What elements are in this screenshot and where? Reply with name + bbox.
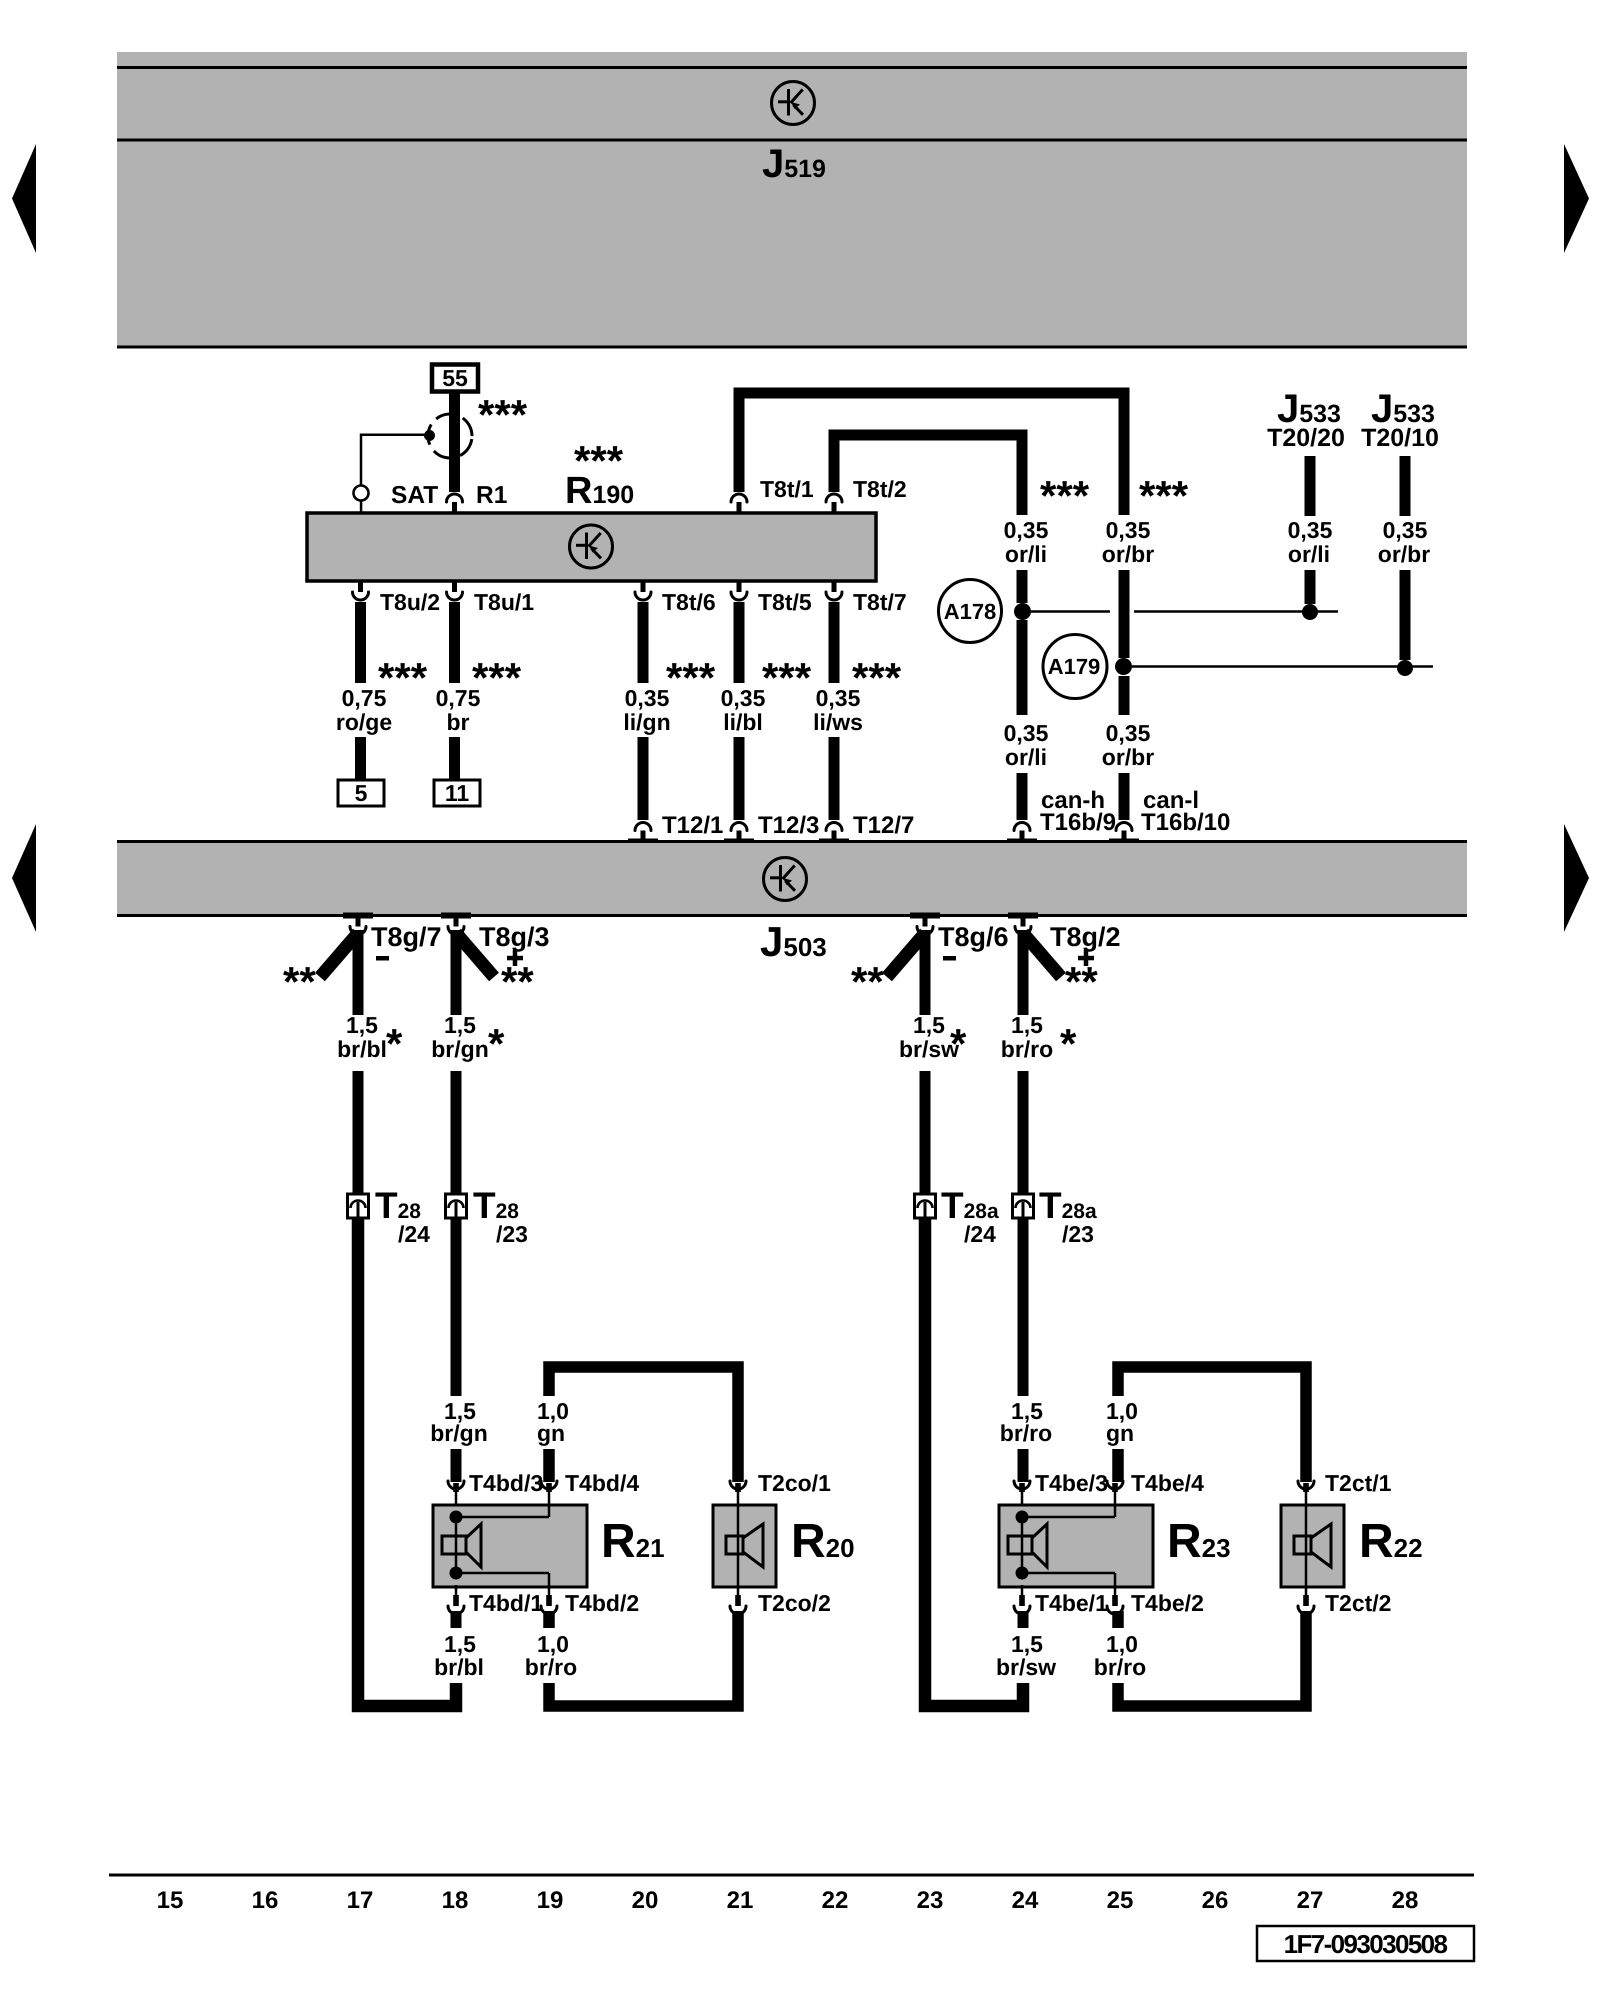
svg-text:T4bd/2: T4bd/2 <box>565 1590 639 1616</box>
pin T4bd/2 <box>541 1585 557 1614</box>
wire 0,35 li/bl from T8t/5 <box>734 602 745 820</box>
svg-text:/23: /23 <box>496 1221 528 1247</box>
svg-text:br/bl: br/bl <box>337 1036 387 1062</box>
svg-text:T20/20: T20/20 <box>1267 424 1345 452</box>
svg-text:br/ro: br/ro <box>1001 1036 1053 1062</box>
pin T2co/2 <box>730 1585 746 1614</box>
svg-text:br/ro: br/ro <box>1000 1420 1052 1446</box>
wire br/bl down-left column to bottom elbow <box>358 1218 456 1706</box>
svg-text:0,35: 0,35 <box>1106 517 1151 543</box>
svg-text:0,35: 0,35 <box>721 685 766 711</box>
svg-text:T4be/4: T4be/4 <box>1131 1470 1204 1496</box>
pin T16b/10 on J503 <box>1116 823 1132 843</box>
svg-text:0,35: 0,35 <box>1004 517 1049 543</box>
svg-text:***: *** <box>1139 472 1189 519</box>
svg-text:25: 25 <box>1107 1887 1134 1914</box>
polarity - <box>376 956 389 961</box>
svg-text:br/gn: br/gn <box>430 1420 488 1446</box>
svg-text:ro/ge: ro/ge <box>336 709 392 735</box>
svg-text:**: ** <box>851 958 884 1005</box>
svg-text:or/li: or/li <box>1005 744 1047 770</box>
pin T8g/3 on J503 <box>448 915 464 935</box>
svg-text:5: 5 <box>355 780 368 806</box>
pin T4be/3 <box>1014 1481 1030 1506</box>
junction dot A179 on or/br <box>1115 658 1132 675</box>
svg-text:**: ** <box>1065 958 1098 1005</box>
wire 1,5 br/sw <box>920 930 931 1194</box>
svg-text:T8u/1: T8u/1 <box>474 589 534 615</box>
pin T4be/2 <box>1107 1585 1123 1614</box>
speaker R20 box <box>713 1505 776 1587</box>
speaker R21 box <box>433 1505 587 1587</box>
svg-text:1,5: 1,5 <box>346 1012 378 1038</box>
page continuation arrow right top <box>1564 144 1589 253</box>
svg-text:0,75: 0,75 <box>342 685 387 711</box>
svg-text:T4bd/3: T4bd/3 <box>469 1470 543 1496</box>
pin T8t/6 on R190 <box>635 581 651 601</box>
pin T4bd/1 <box>448 1585 464 1614</box>
svg-text:T8t/7: T8t/7 <box>853 589 907 615</box>
svg-text:li/gn: li/gn <box>623 709 670 735</box>
svg-text:br/bl: br/bl <box>434 1654 484 1680</box>
diagram id box 1F7-093030508 <box>1257 1926 1474 1961</box>
svg-text:or/br: or/br <box>1378 541 1430 567</box>
junction dot A178 on or/li <box>1014 603 1031 620</box>
terminal 5 box <box>338 780 384 806</box>
svg-text:*: * <box>488 1020 505 1067</box>
pin T4bd/3 <box>448 1481 464 1506</box>
pin T4bd/4 <box>541 1481 557 1506</box>
svg-text:T2ct/1: T2ct/1 <box>1325 1470 1392 1496</box>
wire 0,35 li/gn from T8t/6 <box>638 602 649 820</box>
svg-text:T16b/9: T16b/9 <box>1040 809 1116 836</box>
thin link line A179 to J533 T20/10 <box>1132 665 1433 668</box>
pin T8g/6 on J503 <box>917 915 933 935</box>
svg-text:T8g/7: T8g/7 <box>371 922 442 952</box>
wire br/ro column down to T4be/3 <box>1018 1218 1029 1482</box>
pin T8t/7 on R190 <box>826 581 842 601</box>
svg-text:SAT: SAT <box>391 482 438 509</box>
J503 internal connection symbol (circle K) <box>764 858 807 901</box>
svg-text:**: ** <box>283 958 316 1005</box>
svg-text:T4bd/4: T4bd/4 <box>565 1470 639 1496</box>
wire segment above T4be/1 <box>1018 1611 1029 1628</box>
wire 1,0 br/ro elbow T4be/2 to T2ct/2 <box>1118 1611 1306 1706</box>
pin T12/3 on J503 <box>731 823 747 843</box>
svg-text:0,35: 0,35 <box>1106 720 1151 746</box>
connector T28/23 <box>446 1194 467 1218</box>
page continuation arrow left bottom <box>12 824 36 932</box>
svg-text:R1: R1 <box>476 482 507 509</box>
svg-text:/23: /23 <box>1062 1221 1094 1247</box>
wire 0,75 br from T8u/1 <box>449 602 460 780</box>
svg-text:T4be/1: T4be/1 <box>1035 1590 1108 1616</box>
svg-text:0,35: 0,35 <box>625 685 670 711</box>
radio/amplifier box R190 <box>307 513 876 581</box>
svg-text:21: 21 <box>727 1887 754 1914</box>
diagonal stub at T8g/7 <box>320 933 358 977</box>
svg-text:***: *** <box>1040 472 1090 519</box>
diagonal stub at T8g/6 <box>887 933 925 977</box>
pin T12/1 on J503 <box>635 823 651 843</box>
wire 1,0 br/ro elbow T4bd/2 to T2co/2 <box>549 1611 738 1706</box>
svg-text:55: 55 <box>442 365 468 391</box>
svg-text:15: 15 <box>157 1887 184 1914</box>
wire 1,0 gn elbow T4be/4 to T2ct/1 <box>1118 1367 1306 1482</box>
svg-text:0,35: 0,35 <box>1383 517 1428 543</box>
svg-text:27: 27 <box>1297 1887 1324 1914</box>
wire br/sw down-left column to bottom elbow (right group) <box>925 1218 1023 1706</box>
svg-text:li/ws: li/ws <box>813 709 863 735</box>
svg-text:19: 19 <box>537 1887 564 1914</box>
wire end dot J533 T20/10 <box>1397 660 1413 676</box>
svg-text:/24: /24 <box>964 1221 996 1247</box>
svg-text:br/gn: br/gn <box>431 1036 489 1062</box>
svg-text:1F7-093030508: 1F7-093030508 <box>1284 1929 1448 1959</box>
svg-text:T8t/1: T8t/1 <box>760 476 814 502</box>
connector T28a/23 <box>1013 1194 1034 1218</box>
svg-text:br/ro: br/ro <box>1094 1654 1146 1680</box>
pin T12/7 on J503 <box>826 823 842 843</box>
svg-text:T2co/2: T2co/2 <box>758 1590 831 1616</box>
svg-text:T20/10: T20/10 <box>1361 424 1439 452</box>
svg-text:23: 23 <box>917 1887 944 1914</box>
polarity + <box>507 950 523 966</box>
svg-text:or/li: or/li <box>1288 541 1330 567</box>
wire end dot J533 T20/20 <box>1302 604 1318 620</box>
wire J533 T20/20 0,35 or/li <box>1305 456 1316 604</box>
svg-text:gn: gn <box>537 1420 565 1446</box>
speaker R23 box <box>999 1505 1153 1587</box>
svg-text:0,35: 0,35 <box>1288 517 1333 543</box>
svg-text:28: 28 <box>1392 1887 1419 1914</box>
svg-text:T8g/2: T8g/2 <box>1050 922 1121 952</box>
svg-text:or/br: or/br <box>1102 744 1154 770</box>
antenna joint circle (dashed) <box>424 411 475 461</box>
svg-text:T2ct/2: T2ct/2 <box>1325 1590 1391 1616</box>
pin T2ct/1 <box>1298 1481 1314 1506</box>
svg-text:T8g/6: T8g/6 <box>938 922 1009 952</box>
svg-text:***: *** <box>762 654 812 701</box>
svg-text:**: ** <box>501 958 534 1005</box>
svg-text:1,5: 1,5 <box>1011 1012 1043 1038</box>
svg-text:1,5: 1,5 <box>444 1012 476 1038</box>
svg-text:T12/3: T12/3 <box>758 812 819 839</box>
pin T8g/2 on J503 <box>1015 915 1031 935</box>
pin R1 on R190 <box>447 494 463 514</box>
pin T8u/2 on R190 <box>353 581 369 601</box>
control unit J503 band (radio display/control unit) <box>117 841 1467 916</box>
svg-text:T8t/5: T8t/5 <box>758 589 812 615</box>
svg-text:A179: A179 <box>1048 654 1101 679</box>
J519 internal connection symbol (circle K) <box>772 82 815 125</box>
pin T16b/9 on J503 <box>1014 823 1030 843</box>
svg-text:24: 24 <box>1012 1887 1039 1914</box>
svg-text:0,35: 0,35 <box>816 685 861 711</box>
svg-text:T12/1: T12/1 <box>662 812 723 839</box>
svg-text:T8g/3: T8g/3 <box>479 922 550 952</box>
svg-text:11: 11 <box>445 780 470 806</box>
pin T4be/1 <box>1014 1585 1030 1614</box>
node A178 circle <box>939 580 1002 643</box>
node A179 circle <box>1043 635 1107 699</box>
wire 0,35 li/ws from T8t/7 <box>829 602 840 820</box>
svg-text:18: 18 <box>442 1887 469 1914</box>
control unit J519 band (onboard supply control unit) <box>117 52 1467 347</box>
SAT tap wire <box>361 435 429 486</box>
wire 1,5 br/gn <box>451 930 462 1194</box>
thin link line A178 to J533 T20/20 <box>1031 610 1338 613</box>
svg-text:br/ro: br/ro <box>525 1654 577 1680</box>
svg-text:0,75: 0,75 <box>436 685 481 711</box>
svg-text:*: * <box>950 1020 967 1067</box>
svg-text:T2co/1: T2co/1 <box>758 1470 831 1496</box>
svg-text:or/li: or/li <box>1005 541 1047 567</box>
R190 internal connection symbol (circle K) <box>570 525 613 568</box>
svg-text:16: 16 <box>252 1887 279 1914</box>
internal wiring R21 <box>450 1505 550 1587</box>
wire 1,0 gn elbow T4bd/4 to T2co/1 <box>549 1367 738 1482</box>
pin T8u/1 on R190 <box>447 581 463 601</box>
svg-text:br/sw: br/sw <box>996 1654 1056 1680</box>
connector T28a/24 <box>915 1194 936 1218</box>
svg-text:***: *** <box>666 654 716 701</box>
SAT pin circle <box>354 486 369 514</box>
svg-text:or/br: or/br <box>1102 541 1154 567</box>
page continuation arrow left top <box>12 144 36 253</box>
pin T2ct/2 <box>1298 1585 1314 1614</box>
svg-text:T4be/2: T4be/2 <box>1131 1590 1204 1616</box>
polarity + <box>1078 950 1094 966</box>
svg-text:1,5: 1,5 <box>913 1012 945 1038</box>
svg-text:T8t/2: T8t/2 <box>853 476 907 502</box>
wire br/gn column down to T4bd/3 <box>451 1218 462 1482</box>
speaker icon R21 <box>442 1524 481 1567</box>
wire 0,35 or/br can-l <box>1119 570 1130 820</box>
svg-text:0,35: 0,35 <box>1004 720 1049 746</box>
svg-text:*: * <box>386 1020 403 1067</box>
wire 1,5 br/ro <box>1018 930 1029 1194</box>
pin T8g/7 on J503 <box>350 915 366 935</box>
svg-text:26: 26 <box>1202 1887 1229 1914</box>
svg-text:T8t/6: T8t/6 <box>662 589 716 615</box>
svg-text:T8u/2: T8u/2 <box>380 589 440 615</box>
terminal 11 box <box>434 780 480 806</box>
svg-text:22: 22 <box>822 1887 849 1914</box>
svg-text:T16b/10: T16b/10 <box>1141 809 1230 836</box>
pin T8t/2 on R190 <box>826 494 842 514</box>
svg-text:/24: /24 <box>398 1221 430 1247</box>
speaker icon R23 <box>1008 1524 1047 1567</box>
svg-text:T4bd/1: T4bd/1 <box>469 1590 543 1616</box>
wire segment above T4bd/1 <box>451 1611 462 1628</box>
diagonal stub at T8g/2 <box>1023 933 1061 977</box>
speaker icon R22 <box>1294 1524 1331 1567</box>
wire 0,35 or/li can-h <box>1017 570 1028 820</box>
internal wiring R22 <box>1305 1505 1308 1587</box>
pin T2co/1 <box>730 1481 746 1506</box>
internal wiring R23 <box>1016 1505 1116 1587</box>
diagonal stub at T8g/3 <box>456 933 494 977</box>
polarity - <box>943 956 956 961</box>
grid numbers 15-28 <box>157 1887 1419 1914</box>
svg-text:br: br <box>447 709 470 735</box>
wire 1,5 br/bl <box>353 930 364 1194</box>
wire T8t/2 elbow to or/li column <box>834 435 1022 515</box>
svg-text:17: 17 <box>347 1887 374 1914</box>
connector T28/24 <box>348 1194 369 1218</box>
bottom scale line <box>109 1874 1474 1877</box>
svg-text:gn: gn <box>1106 1420 1134 1446</box>
svg-text:20: 20 <box>632 1887 659 1914</box>
page continuation arrow right bottom <box>1564 824 1589 932</box>
svg-text:li/bl: li/bl <box>723 709 763 735</box>
wire 0,75 ro/ge from T8u/2 <box>355 602 366 780</box>
svg-text:***: *** <box>478 391 528 438</box>
speaker R22 box <box>1281 1505 1344 1587</box>
svg-text:T4be/3: T4be/3 <box>1035 1470 1108 1496</box>
svg-text:*: * <box>1060 1020 1077 1067</box>
pin T4be/4 <box>1107 1481 1123 1506</box>
wire J533 T20/10 0,35 or/br <box>1400 456 1411 660</box>
pin T8t/1 on R190 <box>731 494 747 514</box>
internal wiring R20 <box>737 1505 740 1587</box>
terminal 55 box <box>432 365 478 392</box>
pin T8t/5 on R190 <box>731 581 747 601</box>
svg-text:T12/7: T12/7 <box>853 812 914 839</box>
svg-text:A178: A178 <box>944 599 997 624</box>
wire T8t/1 elbow to or/br column <box>739 393 1124 515</box>
speaker icon R20 <box>726 1524 763 1567</box>
wire from terminal 55 to R190 pin R1 <box>449 390 460 492</box>
